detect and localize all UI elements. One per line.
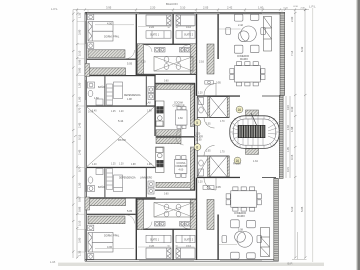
unit circle 5	[194, 119, 201, 126]
svg-text:B.P.: B.P.	[288, 262, 293, 266]
scan shadow band bottom	[58, 263, 324, 266]
patio diagonals	[87, 107, 155, 167]
svg-text:1.50: 1.50	[78, 182, 82, 188]
top exterior wall	[85, 12, 285, 14]
svg-text:1.35: 1.35	[78, 250, 82, 256]
foyer closet bottom unit	[207, 200, 214, 230]
svg-text:5.08: 5.08	[238, 229, 243, 232]
elevator shaft walls bottom	[227, 156, 229, 177]
svg-text:3.95: 3.95	[106, 6, 112, 10]
svg-text:1.35: 1.35	[78, 12, 82, 18]
stair dim lines right of oval	[286, 96, 290, 178]
svg-text:BAÑO: BAÑO	[98, 86, 105, 89]
svg-text:1.40: 1.40	[92, 164, 97, 166]
right exterior wall middle (hatched thick)	[279, 95, 283, 178]
master bedroom door arc top	[126, 50, 135, 59]
stair stadium outer	[230, 116, 279, 149]
svg-text:16.90: 16.90	[196, 139, 203, 142]
suite1 door arc top	[145, 45, 152, 52]
wall foyer/living bottom	[217, 215, 218, 260]
foyer closet hatched	[207, 44, 214, 74]
wall kitchen right vertical	[194, 83, 195, 136]
bed master	[88, 22, 113, 42]
svg-text:SUITE 2: SUITE 2	[184, 239, 194, 242]
left wall pier top	[85, 64, 90, 77]
svg-text:SUITE 2: SUITE 2	[184, 33, 194, 36]
svg-text:1.40: 1.40	[92, 111, 97, 113]
shelf top unit	[205, 81, 214, 84]
dim line living top	[219, 28, 241, 30]
kitchen right counter hatched bottom	[190, 147, 194, 190]
tall cabinet bottom right	[261, 228, 270, 257]
window center line bottom wall	[139, 259, 262, 261]
svg-text:1.50: 1.50	[78, 82, 82, 88]
left wall pier bottom	[85, 197, 90, 210]
svg-text:2.16: 2.16	[199, 61, 204, 64]
svg-text:3.10: 3.10	[180, 6, 186, 10]
suite2 shower hatched bottom	[190, 199, 196, 230]
palier middle walls	[197, 97, 229, 177]
kitchen top counter hatched	[156, 84, 194, 89]
svg-text:PATIO: PATIO	[118, 138, 127, 142]
wall bano/dependencia top	[104, 76, 105, 105]
suite 2 bed bottom	[176, 248, 195, 259]
wall above suite bathrooms bottom	[137, 199, 196, 200]
svg-text:1.80: 1.80	[78, 96, 82, 102]
wc room top fixtures	[197, 97, 209, 118]
svg-text:7.14: 7.14	[290, 50, 294, 56]
service dim texts top unit	[92, 111, 152, 114]
right exterior wall lower (hatched thick)	[274, 178, 279, 261]
svg-text:0.95: 0.95	[216, 82, 221, 85]
unit circle 6	[194, 144, 201, 151]
right exterior wall upper (hatched thick)	[280, 12, 285, 95]
svg-text:1.25: 1.25	[111, 111, 116, 113]
dim line 4.00 master bottom	[95, 248, 134, 250]
wall dependencia/lav top	[146, 76, 147, 105]
window center line top wall	[139, 12, 262, 14]
bottom right dim connector	[292, 232, 307, 259]
svg-text:DEPENDENCIA: DEPENDENCIA	[124, 94, 141, 97]
svg-text:0.86: 0.86	[78, 59, 82, 65]
top dimension line	[73, 9, 309, 11]
dependencia bed bottom	[114, 175, 123, 192]
svg-text:COMEDOR: COMEDOR	[234, 213, 246, 215]
svg-text:0.60: 0.60	[164, 81, 169, 83]
svg-text:COMEDOR: COMEDOR	[237, 56, 249, 58]
wall dependencia/lav bottom	[146, 168, 147, 197]
svg-text:0.80: 0.80	[78, 67, 82, 73]
wall under suite bathrooms top	[137, 74, 196, 75]
wc room bottom fixtures	[197, 156, 209, 177]
wall palier block bottom	[197, 177, 240, 178]
svg-text:5.10: 5.10	[78, 50, 82, 56]
svg-text:3.00: 3.00	[78, 237, 82, 243]
svg-text:L.P.L: L.P.L	[51, 7, 58, 11]
elevator top (X box)	[210, 97, 227, 118]
window center line left wall	[85, 21, 87, 252]
svg-text:BAÑO: BAÑO	[98, 186, 105, 189]
kitchen bottom unit lower counter hatched	[156, 182, 194, 187]
wall suite2/foyer bottom	[196, 178, 197, 260]
left exterior wall	[85, 12, 87, 261]
svg-text:DORM. PPAL: DORM. PPAL	[104, 36, 120, 39]
svg-text:1.25: 1.25	[111, 164, 116, 166]
svg-text:2.00: 2.00	[290, 16, 294, 22]
svg-text:5.05: 5.05	[127, 62, 133, 66]
tiny 50 marks near center wall top	[168, 27, 179, 248]
tick marks right lines	[294, 9, 307, 259]
wall suite1/suite2 bottom	[172, 230, 173, 260]
wall mid kitchens	[156, 136, 196, 137]
wall service strip top	[87, 75, 156, 76]
nightstand lower	[88, 43, 94, 49]
svg-text:DEPENDENCIA: DEPENDENCIA	[119, 177, 136, 180]
kitchen table	[176, 107, 188, 129]
svg-text:1.98: 1.98	[147, 164, 152, 166]
suite 1 bed	[146, 15, 171, 26]
entry door arc bottom unit	[204, 178, 216, 190]
svg-text:0.95: 0.95	[216, 186, 221, 189]
svg-text:5.10: 5.10	[78, 220, 82, 226]
wall kitchen right vertical bottom	[194, 138, 195, 191]
svg-text:COCINA: COCINA	[174, 102, 183, 105]
tick marks left lines	[72, 13, 79, 259]
left dimension line outer	[72, 10, 74, 258]
svg-text:2.42: 2.42	[227, 6, 233, 10]
svg-text:4.60: 4.60	[178, 117, 183, 120]
svg-text:COCINA: COCINA	[177, 162, 186, 165]
wall patio top	[87, 105, 156, 106]
wall patio bottom	[87, 167, 156, 168]
stair arrow	[251, 113, 257, 126]
round table + chairs top	[226, 14, 266, 53]
wardrobe band A	[88, 50, 125, 58]
svg-text:0.15: 0.15	[290, 154, 294, 160]
svg-text:1.98: 1.98	[127, 98, 132, 101]
elevator left hatch top	[208, 97, 210, 118]
svg-text:2.45: 2.45	[78, 149, 82, 155]
svg-text:2.42: 2.42	[238, 24, 243, 27]
suite1 door arc bottom	[145, 222, 152, 229]
svg-text:16: 16	[236, 159, 240, 163]
right dimension line outer	[304, 10, 306, 258]
wall master/suite1 bottom	[136, 198, 137, 260]
svg-text:5.44: 5.44	[118, 119, 124, 123]
palier door arcs	[204, 118, 215, 157]
wardrobe band B	[88, 68, 126, 75]
svg-text:2.05: 2.05	[203, 6, 209, 10]
svg-text:DIARIO: DIARIO	[237, 215, 245, 218]
entry door arc top unit	[204, 83, 216, 95]
svg-text:DORM. PPAL: DORM. PPAL	[104, 235, 120, 238]
right dimension line inner	[294, 10, 296, 258]
svg-text:2.20: 2.20	[149, 25, 155, 29]
suite2 door arc top	[181, 45, 188, 52]
wall kitchen bottom unit	[155, 190, 195, 191]
wardrobe band B bottom	[88, 199, 126, 206]
scan dark vertical edge far right	[357, 0, 360, 270]
wall foyer/living	[217, 14, 218, 59]
dining table top	[230, 62, 265, 86]
svg-text:1.98: 1.98	[131, 164, 136, 166]
wall suites/bathrooms horizontal	[137, 44, 196, 45]
svg-text:0.70: 0.70	[78, 166, 82, 172]
wall master/suite1	[136, 14, 137, 76]
svg-text:0.70: 0.70	[78, 107, 82, 113]
riser ticks from top dim to wall	[88, 10, 282, 13]
svg-text:0.20: 0.20	[287, 105, 290, 110]
kitchen right counter hatched top	[190, 85, 194, 127]
kitchen table bottom	[174, 156, 187, 178]
svg-text:LAV.: LAV.	[147, 102, 152, 105]
svg-text:2.20: 2.20	[141, 61, 146, 64]
suite closets	[146, 31, 195, 38]
svg-text:1.70: 1.70	[220, 152, 225, 154]
svg-text:1.20: 1.20	[119, 111, 124, 113]
svg-text:COMEDOR: COMEDOR	[173, 106, 185, 108]
round table + chairs bottom	[222, 220, 262, 259]
svg-text:L.P.L: L.P.L	[309, 5, 316, 9]
bottom exterior wall	[85, 260, 278, 262]
stair dim texts right of oval	[287, 105, 290, 172]
circle 16 top	[236, 106, 243, 113]
service dim texts bottom unit	[92, 164, 152, 167]
svg-text:1.98: 1.98	[290, 126, 294, 132]
svg-text:0.15: 0.15	[78, 134, 82, 140]
dimension numbers right (rotated)	[290, 16, 304, 212]
wall corridor bottom unit	[87, 214, 136, 215]
suite1 shower hatched	[137, 44, 143, 75]
wall service strip bottom	[87, 197, 156, 198]
elevator shaft walls top	[227, 97, 229, 118]
svg-text:1.60: 1.60	[94, 97, 99, 100]
svg-text:1.20: 1.20	[198, 93, 203, 95]
svg-text:0.86: 0.86	[78, 206, 82, 212]
shelf bottom unit top-left of living	[203, 186, 214, 190]
svg-text:5.10: 5.10	[290, 206, 294, 212]
svg-text:1.20: 1.20	[119, 164, 124, 166]
shower tiles column	[107, 84, 113, 105]
svg-text:1.70: 1.70	[220, 121, 225, 123]
elevator left hatch bottom	[208, 156, 210, 177]
interior dim line suites bottom	[138, 246, 195, 248]
nightstand upper	[88, 14, 94, 20]
stair radial steps	[230, 116, 279, 149]
bano fixtures (service strip)	[88, 82, 104, 105]
dim line 4.00 master	[95, 24, 134, 26]
suite 1 bed bottom	[146, 248, 171, 259]
dimension numbers left (rotated)	[78, 12, 82, 256]
svg-text:SUITE 1: SUITE 1	[150, 33, 160, 36]
lav machines	[148, 87, 154, 100]
lav machines bottom	[148, 181, 154, 194]
wall palier block top	[197, 95, 240, 96]
wall kitchen top	[155, 83, 195, 84]
interior dim line suites top	[138, 26, 195, 28]
tiny corner dim texts top-right	[284, 6, 306, 10]
svg-text:1.05: 1.05	[287, 147, 290, 152]
dim line living bottom	[219, 244, 237, 246]
tall cabinet right	[264, 17, 272, 52]
dining table bottom	[226, 187, 261, 211]
scan faint vertical line right	[312, 8, 314, 262]
svg-text:2.45: 2.45	[78, 122, 82, 128]
svg-text:5: 5	[196, 121, 198, 125]
svg-text:BALCON: BALCON	[166, 2, 178, 6]
svg-text:1.34: 1.34	[253, 160, 258, 163]
svg-text:L.M.: L.M.	[50, 260, 56, 264]
suite bathrooms fixtures bottom	[155, 204, 191, 226]
svg-text:PALIER: PALIER	[233, 163, 241, 166]
airshaft X over bathroom block bottom	[154, 203, 193, 218]
dimension numbers top	[106, 6, 264, 10]
svg-text:4.60: 4.60	[179, 168, 184, 171]
svg-text:1.60: 1.60	[258, 6, 264, 10]
bed master bottom	[88, 233, 113, 253]
nightstand bottom unit upper	[88, 225, 94, 231]
svg-text:0.60: 0.60	[164, 194, 169, 196]
riser ticks from left dim to wall	[77, 22, 85, 253]
suite2 door arc bottom	[181, 222, 188, 229]
svg-text:16: 16	[238, 108, 242, 112]
wall bano/dependencia bottom	[104, 168, 105, 197]
left dimension line inner	[76, 10, 78, 258]
svg-text:3.10: 3.10	[186, 25, 192, 29]
svg-text:6: 6	[196, 146, 198, 150]
suite1 shower hatched bottom	[137, 199, 143, 230]
svg-text:DIARIO: DIARIO	[240, 58, 248, 61]
svg-text:5.05: 5.05	[127, 209, 133, 213]
svg-text:4.00: 4.00	[107, 22, 113, 26]
corridor door arc top unit	[176, 129, 184, 145]
nightstand bottom unit lower	[88, 254, 94, 260]
wardrobe band A bottom	[88, 216, 125, 224]
svg-text:1.98: 1.98	[147, 111, 152, 113]
suite 2 bed	[176, 15, 195, 26]
living walls right of core	[229, 96, 280, 178]
wall suites/bathrooms horizontal bottom	[137, 229, 196, 230]
wall suite1/suite2	[172, 14, 173, 44]
svg-text:0.30: 0.30	[290, 106, 294, 112]
suite bathrooms fixtures top	[155, 48, 191, 70]
svg-text:SUITE 1: SUITE 1	[150, 239, 160, 242]
svg-text:4.00: 4.00	[107, 245, 113, 249]
svg-text:3.00: 3.00	[78, 29, 82, 35]
stair mat bottom	[246, 149, 259, 155]
kitchen stove counter bottom	[156, 147, 164, 173]
stair flight center (dense steps)	[238, 125, 265, 137]
svg-text:2.05: 2.05	[206, 151, 211, 153]
svg-text:6.42: 6.42	[300, 46, 304, 52]
stair mat top	[246, 110, 259, 116]
suite2 shower hatched	[190, 44, 196, 75]
stair stadium inner ring	[233, 119, 276, 145]
dependencia bed	[114, 82, 123, 99]
wall suite2/foyer	[196, 14, 197, 96]
misc small dim texts	[164, 81, 225, 196]
svg-text:0.80: 0.80	[78, 196, 82, 202]
svg-text:5.05: 5.05	[300, 206, 304, 212]
elevator bottom (X box)	[210, 156, 227, 177]
bano fixtures bottom	[88, 169, 104, 192]
svg-text:2.30: 2.30	[287, 125, 290, 130]
svg-text:1.20: 1.20	[198, 182, 203, 184]
svg-text:2.20: 2.20	[150, 6, 156, 10]
svg-text:2.05: 2.05	[206, 124, 211, 126]
master bedroom door arc bottom	[126, 215, 135, 224]
kitchen bottom unit upper counter hatched	[156, 138, 181, 144]
wall corridor top	[87, 59, 136, 60]
suite closets bottom	[146, 235, 195, 242]
tick marks top	[76, 8, 306, 10]
circle 16 bottom	[234, 157, 241, 164]
kitchen bottom counter hatched	[156, 130, 181, 136]
svg-text:0.15: 0.15	[287, 167, 290, 172]
kitchen stove counter	[156, 101, 164, 127]
wall kitchen left vertical	[154, 75, 155, 136]
shower tiles bottom	[107, 169, 113, 190]
airshaft X over bathroom block	[154, 57, 193, 72]
